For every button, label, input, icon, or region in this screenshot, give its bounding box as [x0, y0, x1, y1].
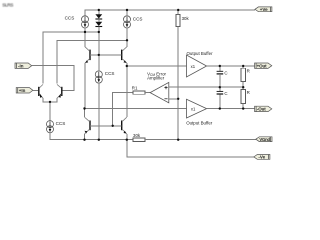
current source CCS3 (middle): [95, 71, 102, 83]
terminal +Ve: [255, 7, 272, 12]
resistor R1: [133, 91, 145, 94]
wire -In routing: [32, 66, 74, 91]
svg-text:C: C: [224, 71, 227, 76]
svg-text:+Ve: +Ve: [260, 7, 268, 12]
transistor Q4 (upper middle right, NPN): [122, 40, 127, 66]
svg-text:30k: 30k: [133, 133, 141, 138]
transistor Q2 (input right, PNP): [50, 84, 62, 102]
svg-text:30k: 30k: [182, 16, 190, 21]
svg-text:CCS: CCS: [56, 121, 66, 126]
terminal -In: [15, 63, 32, 68]
svg-text:Output Buffer: Output Buffer: [186, 120, 213, 125]
svg-text:x1: x1: [191, 64, 196, 69]
wire left collector node y=32: [43, 32, 99, 83]
wire +In lead: [33, 90, 38, 92]
terminal +In: [16, 88, 33, 93]
svg-text:-Out: -Out: [257, 107, 266, 112]
resistor R (lower): [241, 90, 246, 109]
terminal -Ve: [254, 155, 270, 160]
op-amp U3 output buffer (lower): [187, 99, 207, 118]
svg-text:-Ve: -Ve: [258, 155, 265, 160]
wire base drive vertical: [113, 93, 134, 126]
wire right collector node y=40.3: [57, 40, 127, 83]
wire CCS2 leads: [126, 10, 128, 40]
svg-text:-In: -In: [18, 63, 24, 68]
wire R1 to error amp: [145, 92, 150, 94]
wire error amp + input: [169, 86, 243, 88]
capacitor C (lower): [217, 87, 224, 108]
wire upper buffer input: [127, 65, 187, 67]
op-amp U1 VCM error amplifier: [150, 82, 169, 102]
wire Q3-Q4 base rail: [90, 54, 122, 56]
svg-text:R: R: [247, 69, 250, 74]
wire -Ve rail: [127, 140, 254, 157]
svg-text:CCS: CCS: [133, 16, 143, 21]
wire CCS4 to rail: [50, 133, 133, 140]
transistor Q1 (input left, PNP): [39, 84, 50, 102]
current source CCS1 (top left): [82, 16, 89, 28]
terminal +Out: [255, 63, 272, 68]
wire lower buffer input: [85, 108, 187, 110]
svg-text:Amplifier: Amplifier: [147, 76, 165, 81]
diode D1: [95, 10, 102, 19]
wire lower buffer output: [207, 108, 255, 110]
wire middle column: [98, 33, 100, 140]
wire Q5-Q6 base rail: [90, 125, 122, 127]
wire top +Ve rail: [85, 10, 255, 16]
svg-text:SLRS: SLRS: [2, 3, 13, 8]
svg-text:x1: x1: [191, 106, 196, 111]
svg-text:CCS: CCS: [65, 16, 75, 21]
resistor R (upper): [241, 66, 246, 90]
terminal VGnd: [256, 137, 272, 142]
current source CCS2 (top right): [124, 16, 131, 28]
svg-text:Output Buffer: Output Buffer: [187, 51, 214, 56]
svg-text:CCS: CCS: [105, 71, 115, 76]
wire tail node: [49, 102, 51, 121]
wire CCS1 bottom lead: [84, 28, 86, 32]
capacitor C (upper): [217, 66, 224, 87]
resistor 30k (top): [176, 10, 180, 140]
diode D2: [95, 19, 102, 33]
svg-text:VGnd: VGnd: [259, 137, 270, 142]
transistor Q5 (lower middle left, NPN): [85, 109, 91, 140]
wire error amp - input: [169, 98, 178, 100]
svg-text:C: C: [224, 91, 227, 96]
wire upper buffer output: [207, 65, 255, 67]
svg-text:+Out: +Out: [257, 63, 268, 68]
svg-text:R: R: [247, 90, 250, 95]
svg-text:R1: R1: [132, 85, 138, 90]
transistor Q6 (lower middle right, NPN): [122, 66, 127, 140]
svg-text:+In: +In: [19, 88, 26, 93]
transistor Q3 (upper middle left, NPN): [85, 32, 90, 109]
op-amp U2 output buffer (upper): [187, 55, 207, 77]
current source CCS4 (input tail): [47, 121, 54, 133]
terminal -Out: [255, 106, 272, 112]
resistor 30k (bottom): [133, 138, 256, 141]
